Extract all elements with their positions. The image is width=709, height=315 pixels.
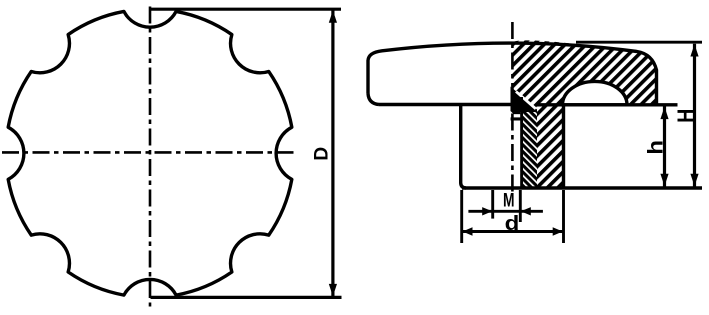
dimension line h	[663, 106, 666, 186]
top extension line (H)	[576, 41, 702, 44]
underside line right of insert, chord of dome, h extension	[537, 103, 678, 106]
dimension line M	[468, 210, 543, 213]
extension line bottom (D)	[151, 296, 342, 299]
extension line top (D)	[151, 8, 342, 11]
thread major diameter line	[520, 97, 523, 188]
svg-text:M: M	[503, 189, 515, 211]
tapped hole (white)	[514, 121, 521, 189]
section hatch: knob body (right half)	[512, 40, 656, 188]
threaded insert section hatch	[520, 111, 537, 188]
hole slit	[514, 114, 521, 117]
extension line M right	[519, 190, 522, 222]
dimension line H	[693, 44, 696, 187]
dimension line D	[331, 10, 334, 297]
svg-text:h: h	[644, 140, 667, 155]
extension line d left	[460, 190, 463, 243]
sectioned finger-recess (dome)	[563, 81, 628, 104]
bottom-left corner of body	[368, 94, 379, 105]
extension line M left	[491, 190, 494, 219]
insert top cone (solid)	[511, 87, 538, 115]
centerline vertical (front view)	[149, 7, 152, 307]
knob body outline (section view)	[368, 43, 657, 104]
dimension line d	[462, 230, 563, 233]
svg-text:d: d	[505, 213, 520, 235]
svg-text:D: D	[311, 147, 333, 161]
centerline horizontal (front view)	[2, 151, 298, 154]
svg-text:H: H	[673, 109, 698, 123]
hub right edge (section)	[562, 105, 565, 189]
extension line d right	[562, 190, 565, 243]
underside line left of hole	[379, 103, 512, 106]
centerline vertical (section view)	[511, 22, 514, 192]
hub left edge	[461, 105, 466, 189]
knob outline (front view, 8-lobed star knob)	[8, 11, 292, 295]
hub bottom + extension line	[462, 186, 702, 190]
